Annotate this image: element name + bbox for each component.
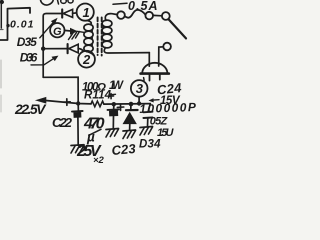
- svg-text:G: G: [53, 26, 62, 38]
- svg-text:100000P: 100000P: [139, 100, 197, 116]
- diode D35: [61, 9, 63, 17]
- top edge cut-off text fragments: [41, 0, 54, 5]
- wire: fuse to switch: [153, 14, 162, 16]
- capacitor C22: [64, 99, 71, 105]
- junction dot on box edge: [6, 24, 9, 27]
- wire: [104, 103, 151, 106]
- 470u fraction slash: [89, 129, 101, 135]
- 15V leader: [151, 99, 159, 102]
- svg-text:D36: D36: [20, 51, 38, 65]
- capacitor C23: [108, 94, 113, 99]
- polarity mark: [117, 104, 124, 110]
- svg-text:15U: 15U: [157, 127, 175, 139]
- pin G: [50, 23, 64, 37]
- fuse F 0.5A: [117, 11, 125, 19]
- wire: chassis to winding center: [77, 31, 85, 32]
- wire: primary bottom to plug: [148, 53, 150, 67]
- svg-text:0.5A: 0.5A: [128, 0, 158, 13]
- svg-text:R114: R114: [84, 90, 112, 102]
- svg-text:0.01: 0.01: [10, 19, 34, 31]
- left edge scan artifact: [0, 0, 2, 28]
- pin 3: [131, 80, 148, 97]
- transformer T primary winding: [105, 14, 117, 21]
- svg-text:2: 2: [82, 52, 91, 67]
- zener diode D34: [130, 104, 132, 110]
- node A junction dot: [41, 47, 45, 51]
- svg-text:1: 1: [83, 5, 90, 20]
- svg-text:D34: D34: [139, 139, 161, 151]
- wire: D36 row: [43, 48, 67, 50]
- component box (cut off at left edge): [0, 8, 30, 40]
- resistor R114: [91, 101, 104, 107]
- svg-text:22.5V: 22.5V: [14, 101, 47, 117]
- wire: switch to plug: [159, 47, 164, 66]
- D36 label leader: [31, 58, 55, 65]
- R114 leader dash: [109, 93, 116, 96]
- D35 label leader: [40, 22, 54, 38]
- fuse leader dash: [113, 3, 127, 4]
- wire: DC rail from D35 cathode down to corner: [43, 13, 61, 77]
- transformer core: [97, 18, 99, 56]
- wire: rail corner to output node: [43, 77, 78, 103]
- switch S: [162, 12, 170, 20]
- 22.5V output arrow: [37, 98, 46, 103]
- transformer T secondary winding: [87, 21, 91, 25]
- junction dots: [76, 101, 80, 105]
- svg-text:D35: D35: [17, 35, 37, 49]
- svg-text:×2: ×2: [93, 155, 105, 164]
- ground (C23): [106, 129, 119, 130]
- ground (C24): [140, 127, 153, 128]
- svg-text:05Z: 05Z: [150, 116, 169, 128]
- capacitor C24: [148, 104, 150, 112]
- svg-text:1W: 1W: [109, 80, 124, 92]
- diode D36: [67, 44, 69, 53]
- ground (D34): [123, 130, 136, 131]
- AC plug P: [142, 63, 167, 74]
- svg-text:3: 3: [136, 81, 144, 96]
- chassis ground (center tap): [71, 29, 77, 35]
- wire: pin G to chassis: [64, 29, 70, 32]
- svg-text:C23: C23: [111, 141, 137, 158]
- ground (C22): [71, 144, 84, 147]
- pin 1: [77, 4, 94, 21]
- wire: main output rail: [45, 100, 92, 104]
- pin 2: [78, 51, 95, 68]
- svg-text:C22: C22: [52, 115, 73, 130]
